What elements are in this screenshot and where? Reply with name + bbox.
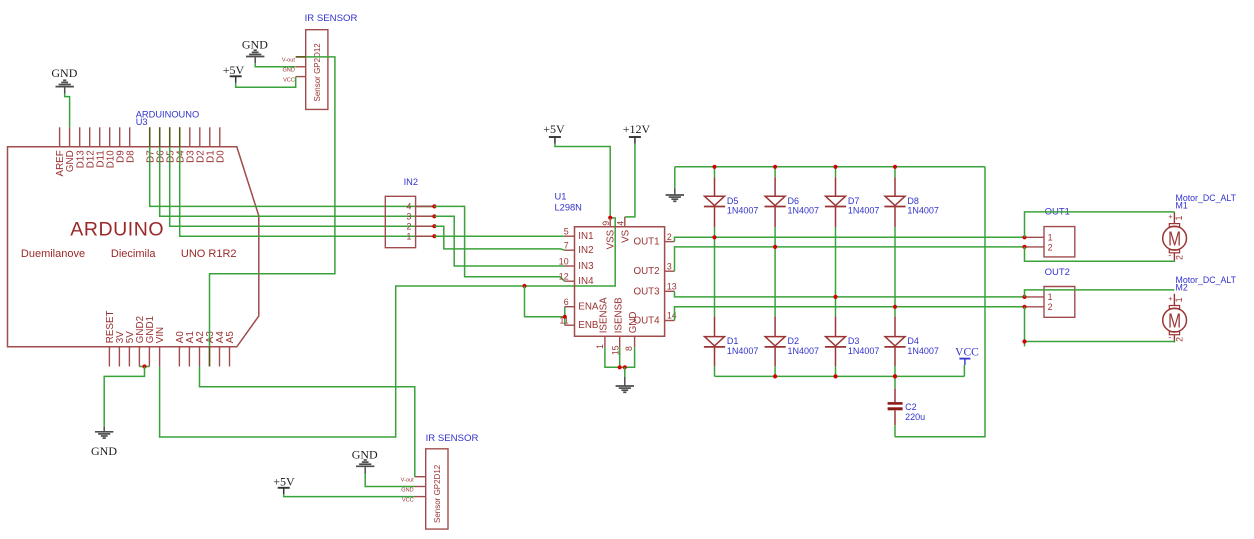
svg-text:VS: VS (621, 229, 632, 243)
svg-text:220u: 220u (905, 412, 925, 422)
junction U1 VSS (608, 216, 612, 220)
U1 pin IN3 (565, 265, 575, 267)
U3 pin VIN (159, 347, 161, 367)
C2 top lead (894, 388, 896, 402)
svg-text:1: 1 (595, 344, 605, 349)
S1 pin VCC (296, 76, 306, 78)
U1 pin GND (634, 336, 636, 347)
junction bottom rail (893, 374, 897, 378)
diode D6 (765, 196, 786, 206)
S2 pin GND (415, 486, 426, 488)
svg-text:1N4007: 1N4007 (907, 346, 939, 356)
wire GND rail right side down to C2 (895, 167, 985, 437)
svg-text:D8: D8 (125, 150, 136, 163)
wire D8 to D4 column (894, 227, 896, 317)
svg-text:D1: D1 (727, 336, 739, 346)
D8 anode lead (894, 207, 896, 227)
wire D4 to VCC rail (894, 366, 896, 376)
ground symbol at S1 (246, 50, 264, 56)
wire overlap on IN2 pin at y=236.2 (416, 235, 435, 237)
diode D4 (884, 337, 905, 347)
power symbol VCC (959, 359, 970, 365)
ground stem top-left (64, 87, 66, 93)
U3 pin GND2 (138, 347, 140, 367)
+12V symbol at U1 (629, 137, 641, 144)
svg-text:IN4: IN4 (578, 276, 594, 287)
svg-text:15: 15 (610, 345, 620, 355)
junction bottom rail (833, 374, 837, 378)
wire U3 D6 to IN2 (160, 147, 435, 217)
U1 pin OUT1 (665, 241, 675, 243)
wire S2 GND pin to ground (365, 474, 414, 487)
wire GND1 to ground symbol (104, 367, 144, 427)
svg-text:1N4007: 1N4007 (727, 346, 759, 356)
svg-text:11: 11 (559, 316, 568, 326)
junction IN2 pin 2 (432, 224, 436, 228)
svg-text:1: 1 (1048, 233, 1053, 243)
U1 pin IN4 (565, 280, 575, 282)
U1 pin VSS (609, 218, 611, 227)
sensor S2 GP2D12 box (426, 449, 448, 529)
diode D8 (884, 196, 905, 206)
wire U3 A2 to S2 V-out (200, 367, 415, 477)
svg-text:Duemilanove: Duemilanove (21, 248, 85, 260)
D6 cathode lead (774, 177, 776, 196)
svg-text:VCC: VCC (283, 78, 295, 84)
IN2 pin 4 (416, 205, 435, 207)
U1 pin VS (624, 217, 626, 227)
svg-text:D7: D7 (848, 196, 860, 206)
D5 cathode lead (714, 177, 716, 196)
U3 pin A4 (219, 347, 221, 367)
wire D2 to VCC rail (774, 366, 776, 376)
svg-text:D2: D2 (788, 336, 800, 346)
diode D3 (825, 337, 846, 347)
D7 cathode lead (835, 177, 837, 196)
U3 pin D1 (209, 127, 211, 147)
wire net OUT4 (675, 307, 1025, 321)
ground stem at S2 (364, 467, 366, 473)
svg-text:2: 2 (1048, 242, 1053, 252)
OUT2 pin 2 (1025, 306, 1045, 308)
wire IN2-3 to U1 IN3 (434, 216, 564, 266)
svg-text:GND: GND (401, 487, 413, 493)
junction IN2 pin 4 (432, 204, 436, 208)
D5 anode lead (714, 207, 716, 227)
svg-text:5: 5 (564, 227, 569, 237)
svg-text:ARDUINO: ARDUINO (70, 219, 164, 241)
ground stem at S1 (254, 57, 256, 63)
wire rail to ground symbol (674, 167, 676, 189)
wire rail to D8 (894, 167, 896, 178)
U3 pin D7 (149, 127, 151, 147)
svg-text:6: 6 (564, 297, 569, 307)
ground symbol top-left (56, 80, 74, 86)
svg-text:OUT2: OUT2 (633, 266, 659, 277)
junction GND drop (623, 365, 627, 369)
D8 cathode lead (894, 177, 896, 196)
wire overlap on S1 V-out pin (296, 56, 306, 58)
U1 pin OUT4 (665, 320, 675, 322)
wire net OUT2 (675, 247, 1025, 271)
svg-text:M: M (1168, 309, 1181, 332)
svg-text:10: 10 (559, 257, 569, 267)
svg-text:Sensor GP2D12: Sensor GP2D12 (433, 464, 442, 523)
svg-text:D4: D4 (907, 336, 919, 346)
svg-text:IN2: IN2 (578, 245, 593, 256)
C2 bottom lead (894, 410, 896, 425)
svg-text:-: - (1168, 250, 1171, 260)
svg-text:GND: GND (51, 66, 77, 80)
junction ISENSB (618, 365, 622, 369)
D2 cathode lead (774, 317, 776, 337)
ground stem arduino-bottom (103, 427, 105, 432)
sensor S1 GP2D12 box (306, 30, 328, 110)
OUT1 pin 2 (1025, 246, 1045, 248)
svg-text:M2: M2 (1176, 282, 1188, 292)
D7 anode lead (835, 207, 837, 227)
wire rail to D7 (835, 167, 837, 178)
svg-text:1N4007: 1N4007 (727, 205, 759, 215)
U1 pin ENB (565, 324, 575, 326)
junction OUT2 pin2 (1022, 305, 1026, 309)
svg-text:3: 3 (406, 212, 411, 222)
svg-text:3: 3 (667, 261, 672, 271)
junction OUT1 pin1 (1022, 235, 1026, 239)
IN2 pin 3 (416, 215, 435, 217)
wire OUT1 pin1 to M1 + (1025, 212, 1175, 237)
svg-text:U3: U3 (136, 117, 148, 127)
svg-text:1N4007: 1N4007 (848, 205, 880, 215)
wire net OUT1 (675, 237, 1025, 241)
D3 anode lead (835, 348, 837, 367)
IN2 pin 2 (416, 225, 435, 227)
diode D2 (765, 337, 786, 347)
wire overlap on U3 D5 pin (169, 127, 171, 147)
junction top rail at D7 (833, 165, 837, 169)
wire overlap on U3 D7 pin (149, 127, 151, 147)
U3 pin D3 (189, 127, 191, 147)
wire +5V to S1 VCC pin (236, 77, 296, 88)
junction GND1/GND2 (142, 364, 146, 368)
junction OUT1 pin2 (1022, 245, 1026, 249)
svg-text:ISENSA: ISENSA (599, 297, 610, 333)
svg-text:VCC: VCC (955, 347, 979, 359)
junction IN2 pin 3 (432, 214, 436, 218)
U3 pin AREF (59, 127, 61, 147)
svg-text:IN3: IN3 (578, 261, 594, 272)
svg-text:+5V: +5V (223, 63, 245, 77)
U3 pin D12 (89, 127, 91, 147)
svg-text:ENA: ENA (578, 302, 599, 313)
junction top rail at D6 (773, 165, 777, 169)
wire GND-symbol to U3 GND pin (65, 94, 70, 128)
svg-text:ISENSB: ISENSB (613, 297, 624, 333)
svg-text:IN2: IN2 (404, 177, 418, 187)
svg-text:GND: GND (91, 444, 117, 458)
svg-text:IN1: IN1 (578, 231, 593, 242)
IN2 pin 1 (416, 235, 435, 237)
wire OUT1 pin2 to M1 - (1025, 247, 1175, 261)
U3 pin A0 (178, 347, 180, 367)
junction OUT line at D7 column (833, 295, 837, 299)
motor M1 (1163, 224, 1187, 253)
S2 pin VCC (415, 496, 426, 498)
junction ENA/ENB (563, 315, 567, 319)
wire IN2-4 to U1 IN4 (434, 206, 564, 281)
junction bottom rail (773, 374, 777, 378)
wire GND rail top (675, 166, 985, 168)
motor M2 (1163, 306, 1187, 335)
wire D7 to D3 column (835, 227, 837, 317)
ground stem at diode rail (674, 189, 676, 196)
svg-text:OUT2: OUT2 (1045, 267, 1070, 278)
OUT1 pin 1 (1025, 236, 1045, 238)
S1 pin GND (296, 66, 306, 68)
wire to U1 ground symbol (624, 367, 626, 377)
svg-text:2: 2 (667, 232, 672, 242)
junction VIN net to ENA/ENB (522, 284, 526, 288)
+5V symbol at U1 (549, 137, 561, 144)
D1 anode lead (714, 348, 716, 367)
wire D6 to D2 column (774, 227, 776, 317)
wire S1 GND pin to ground (255, 63, 296, 67)
U3 pin GND (69, 127, 71, 147)
ground symbol at diode rail (666, 195, 684, 201)
D3 cathode lead (835, 317, 837, 337)
connector IN2 box (385, 196, 415, 247)
U1 pin IN1 (565, 235, 575, 237)
capacitor C2 (888, 403, 903, 408)
junction OUT line at D6 column (773, 245, 777, 249)
U3 pin A1 (188, 347, 190, 367)
junction OUT line at D8 column (893, 305, 897, 309)
U3 pin 5V (128, 347, 130, 367)
wire D3 to VCC rail (835, 366, 837, 376)
wire VCC rail bottom (715, 375, 965, 377)
U3 pin D6 (159, 127, 161, 147)
svg-text:1N4007: 1N4007 (788, 205, 820, 215)
svg-text:7: 7 (564, 241, 569, 251)
wire +5V to U1 VSS (555, 144, 610, 218)
connector OUT2 box (1044, 287, 1075, 318)
U3 pin D8 (129, 127, 131, 147)
wire junction to ENA/ENB (525, 286, 565, 317)
svg-text:D5: D5 (727, 196, 739, 206)
wire VCC rail to VCC symbol (963, 365, 965, 377)
wire U1 ISENSB drop (619, 347, 621, 367)
wire U1 ISENSA/ISENSB/GND tie (605, 347, 635, 367)
svg-text:12: 12 (559, 272, 569, 282)
svg-text:1N4007: 1N4007 (907, 205, 939, 215)
U3 pin D13 (79, 127, 81, 147)
svg-text:VCC: VCC (402, 497, 414, 503)
wire overlap on U3 D4 pin (179, 127, 181, 147)
junction OUT2 pin1 (1022, 295, 1026, 299)
U3 pin D9 (119, 127, 121, 147)
wire D1 to VCC rail (714, 366, 716, 376)
wire net OUT3 (675, 291, 1025, 297)
svg-text:GND: GND (282, 68, 294, 74)
junction C2 at rail (893, 374, 897, 378)
U3 pin D5 (169, 127, 171, 147)
+5V symbol at S1 (230, 76, 242, 83)
+5V symbol at S2 (278, 488, 290, 495)
wire ENA-ENB tie (564, 307, 566, 326)
svg-text:+5V: +5V (543, 122, 565, 136)
wire to M2 - (1025, 342, 1175, 343)
wire OUT2 pin1 to M2 + (1025, 290, 1175, 297)
svg-text:U1: U1 (555, 192, 567, 202)
IC U3 ARDUINO outline (8, 147, 259, 347)
svg-text:+: + (1168, 294, 1173, 303)
D4 anode lead (894, 348, 896, 367)
junction OUT line at D5 column (712, 235, 716, 239)
connector OUT1 box (1044, 227, 1075, 257)
svg-text:2: 2 (1048, 302, 1053, 312)
wire overlap on IN2 pin at y=226.2 (416, 225, 435, 227)
U3 pin RESET (108, 347, 110, 367)
U3 pin A5 (229, 347, 231, 367)
U3 pin 3V (118, 347, 120, 367)
U3 pin D11 (99, 127, 101, 147)
svg-text:V-out: V-out (282, 58, 296, 64)
wire S1 V-out to U3 A3 (210, 57, 335, 347)
U1 pin OUT3 (665, 290, 675, 292)
svg-text:ENB: ENB (578, 320, 599, 331)
svg-text:1N4007: 1N4007 (788, 346, 820, 356)
svg-text:IR SENSOR: IR SENSOR (426, 433, 479, 444)
svg-text:2: 2 (1175, 255, 1185, 260)
svg-text:9: 9 (601, 221, 611, 226)
wire IN2-1 to U1 IN1 (434, 235, 564, 237)
wire U3 D7 to IN2 (150, 147, 435, 207)
wire U3 VIN to +5V/VSS net (160, 218, 616, 437)
wire U3 D5 to IN2 (170, 147, 435, 226)
motor M1 pin leads (1173, 212, 1175, 261)
diode D5 (704, 196, 725, 206)
svg-text:M: M (1168, 227, 1181, 250)
junction top rail at D8 (893, 165, 897, 169)
junction M2 bottom wire (1022, 339, 1026, 343)
U1 pin ISENSA (604, 336, 606, 347)
U3 pin A2 (199, 347, 201, 367)
svg-text:+5V: +5V (273, 475, 295, 489)
svg-text:D0: D0 (215, 150, 226, 163)
svg-text:4: 4 (615, 221, 625, 226)
wire IN2-2 to U1 IN2 (434, 226, 564, 250)
svg-text:D6: D6 (788, 196, 800, 206)
wire OUT2 pin2 down (1024, 307, 1026, 347)
U1 pin OUT2 (665, 270, 675, 272)
U3 pin D0 (219, 127, 221, 147)
wire +5V to S2 VCC pin (284, 494, 415, 496)
S2 pin V-out (415, 476, 426, 478)
svg-text:Sensor GP2D12: Sensor GP2D12 (313, 43, 322, 102)
D1 cathode lead (714, 317, 716, 337)
wire C2 to GND return (894, 425, 896, 437)
wire overlap on U3 D6 pin (159, 127, 161, 147)
motor M2 pin leads (1173, 294, 1175, 343)
junction IN2 pin 1 (432, 234, 436, 238)
diode D1 (704, 337, 725, 347)
svg-text:1: 1 (1174, 216, 1184, 221)
svg-text:GND: GND (628, 312, 639, 334)
ground symbol at U1 (616, 386, 634, 392)
svg-text:-: - (1168, 332, 1171, 342)
svg-text:13: 13 (667, 282, 677, 292)
wire overlap on IN2 pin at y=206.4 (416, 205, 435, 207)
wire rail to C2 (894, 376, 896, 388)
D6 anode lead (774, 207, 776, 227)
ground stem at U1 (624, 377, 626, 386)
U3 pin D4 (179, 127, 181, 147)
svg-text:Diecimila: Diecimila (111, 248, 156, 260)
D4 cathode lead (894, 317, 896, 337)
svg-text:4: 4 (406, 202, 411, 212)
svg-text:+: + (1168, 212, 1173, 221)
svg-text:1N4007: 1N4007 (848, 346, 880, 356)
U3 pin D10 (109, 127, 111, 147)
svg-text:D8: D8 (907, 196, 919, 206)
wire overlap on IN2 pin at y=216.3 (416, 215, 435, 217)
wire rail to D5 (714, 167, 716, 178)
junction top rail at D5 (712, 165, 716, 169)
svg-text:A5: A5 (225, 331, 236, 344)
wire GND2-GND1 tie (139, 366, 149, 368)
svg-text:1: 1 (406, 232, 411, 242)
svg-text:M1: M1 (1176, 200, 1188, 210)
D2 anode lead (774, 348, 776, 367)
svg-text:D3: D3 (848, 336, 860, 346)
wire U3 D4 to IN2 (180, 147, 435, 236)
svg-text:V-out: V-out (401, 477, 415, 483)
wire overlap on U3 A3 pin (209, 347, 211, 367)
wire D5 to D1 column (714, 227, 716, 317)
svg-text:L298N: L298N (555, 203, 582, 213)
svg-text:C2: C2 (905, 402, 917, 412)
svg-text:+12V: +12V (623, 122, 651, 136)
svg-text:2: 2 (1175, 337, 1185, 342)
svg-text:VIN: VIN (155, 327, 166, 343)
wire +12V to U1 VS (625, 144, 635, 217)
S1 pin V-out (296, 56, 306, 58)
svg-text:UNO R1R2: UNO R1R2 (181, 248, 237, 260)
svg-text:1: 1 (1048, 292, 1053, 302)
svg-text:2: 2 (406, 222, 411, 232)
ground symbol at S2 (356, 460, 374, 466)
ground symbol arduino-bottom (95, 432, 113, 438)
U3 pin A3 (209, 347, 211, 367)
svg-text:14: 14 (667, 311, 677, 321)
U1 pin ISENSB (619, 336, 621, 347)
svg-text:8: 8 (624, 346, 634, 351)
OUT2 pin 1 (1025, 296, 1045, 298)
svg-text:OUT1: OUT1 (633, 237, 659, 248)
U3 pin D2 (199, 127, 201, 147)
U3 pin GND1 (148, 347, 150, 367)
wire rail to D6 (774, 167, 776, 178)
diode D7 (825, 196, 846, 206)
svg-text:IR SENSOR: IR SENSOR (305, 13, 358, 24)
svg-text:OUT3: OUT3 (633, 286, 660, 297)
svg-text:1: 1 (1174, 297, 1184, 302)
svg-text:VSS: VSS (606, 229, 617, 249)
IC U1 L298N outline (575, 227, 665, 336)
U1 pin IN2 (565, 249, 575, 251)
U1 pin ENA (565, 306, 575, 308)
